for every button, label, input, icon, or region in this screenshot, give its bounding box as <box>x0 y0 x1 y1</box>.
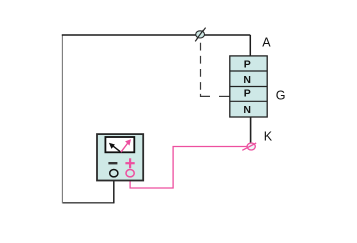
svg-text:P: P <box>244 88 251 100</box>
svg-text:K: K <box>264 130 273 144</box>
svg-text:N: N <box>243 104 251 116</box>
svg-text:P: P <box>244 58 251 70</box>
svg-text:G: G <box>276 89 286 103</box>
svg-text:N: N <box>243 74 251 86</box>
svg-text:A: A <box>262 35 271 49</box>
